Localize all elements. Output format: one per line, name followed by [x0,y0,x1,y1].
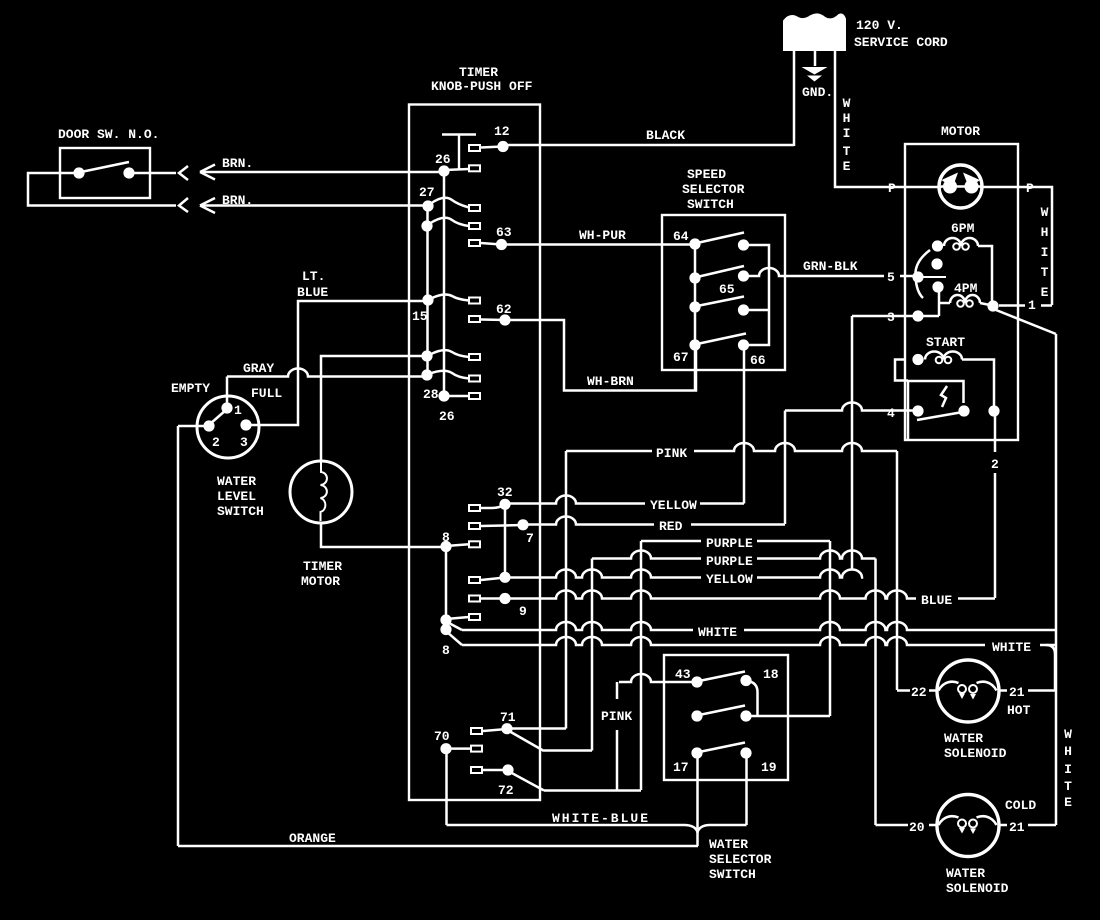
timer terminal 7 dot [517,519,528,530]
wire YELLOW row (32 to 66) [509,496,645,504]
lug 70 [471,746,482,752]
svg-text:FULL: FULL [251,386,282,401]
svg-text:GND.: GND. [802,85,833,100]
lug 577 [469,577,480,583]
svg-text:T: T [843,144,851,159]
svg-text:W: W [1041,205,1049,220]
start switch arm [917,413,960,421]
timer left bus X2 (26 to 28) [443,171,446,396]
svg-text:2: 2 [212,435,220,450]
svg-text:21: 21 [1009,685,1025,700]
lug 8a [469,541,480,547]
speed selector contact r2 fixed [689,272,700,283]
svg-text:BLACK: BLACK [646,128,685,143]
svg-text:WATER: WATER [944,731,983,746]
svg-text:8: 8 [442,530,450,545]
svg-text:BLUE: BLUE [297,285,328,300]
speed selector moving contact r3 [738,304,749,315]
svg-text:COLD: COLD [1005,798,1036,813]
svg-text:W: W [1064,727,1072,742]
svg-text:63: 63 [496,225,512,240]
wire BLUE row (9 to motor 2) [509,591,916,599]
speed selector contact r3 fixed [689,301,700,312]
timer inner dot (gray feed) [421,369,432,380]
wire 6PM right end down to node 1 [978,246,992,305]
wire timer motor bottom lead [321,522,443,547]
wire 71 to pink riser [507,727,566,730]
svg-text:WH-BRN: WH-BRN [587,374,634,389]
start node 2 dot [988,405,999,416]
speed selector box [662,215,785,370]
timer terminal 71 dot [501,723,512,734]
wire orange riser to junction [696,832,699,846]
wire junction to 19 drop [698,825,747,832]
svg-text:SOLENOID: SOLENOID [944,746,1007,761]
speed selector arm 67 [697,334,746,345]
door switch contact right [123,167,134,178]
wire GRAY (1 to timer) [227,369,425,377]
lug 356 [469,354,480,360]
chevron arrowhead row1 [179,166,188,180]
svg-text:PINK: PINK [601,709,632,724]
wire 22 lead [897,689,938,692]
selector moving contact 19 [740,747,751,758]
svg-text:SELECTOR: SELECTOR [682,182,745,197]
svg-text:BRN.: BRN. [222,156,253,171]
svg-text:62: 62 [496,302,512,317]
wire lug to dot 62 [481,318,505,321]
wire 71 arm diagonal [509,731,544,751]
selector moving contact 18 [740,675,751,686]
motor protector circle [939,165,982,208]
timer bus 8a-8c [445,547,448,630]
water solenoid HOT circle [937,660,999,722]
svg-text:67: 67 [673,350,689,365]
timer terminal 8b dot [440,614,451,625]
ground stem [814,50,817,66]
lug 9 [469,596,480,602]
selector arm row C [699,743,745,753]
protector lobe right [965,180,979,194]
svg-text:9: 9 [519,604,527,619]
speed selector contact 64 [689,238,700,249]
speed selector moving contact r1 [738,239,749,250]
timer terminal 32 dot [499,499,510,510]
water level contact 2 [203,420,214,431]
chevron arrowhead row2 [179,198,188,212]
wire dot356 S-curve to lug [429,350,469,357]
svg-text:WATER: WATER [709,837,748,852]
wire dot375 S-curve to lug [429,371,469,379]
svg-text:KNOB-PUSH OFF: KNOB-PUSH OFF [431,79,533,94]
wire P to white drop [1018,187,1052,305]
svg-text:27: 27 [419,185,435,200]
wire 27 S-curve to lug [430,198,469,208]
svg-text:66: 66 [750,353,766,368]
wire BRN to timer 26 [202,171,442,174]
svg-text:SOLENOID: SOLENOID [946,881,1009,896]
wire P row right [983,186,1018,189]
wire water level 2 to orange drop [178,425,209,428]
wire gray riser [226,377,229,407]
wire WHITE-BLUE row (72 arm) [544,789,641,792]
speed selector fixed bus [694,244,697,345]
speed selector arm 64 [697,233,744,244]
svg-text:8: 8 [442,643,450,658]
motor coil 4PM [950,295,980,303]
wire 3 riser down to yellow row [851,316,854,571]
wire pink right drop to solenoid 22 [896,451,899,690]
wire 1 lead [999,304,1052,307]
wire node2 down to BLUE (terminal 2) [994,416,997,598]
speed selector moving contact r2 [738,270,749,281]
wire BRN to timer 27 [202,204,426,207]
selector arm row B [699,706,745,716]
wire white2 corner down to 21 HOT [1046,645,1055,690]
speed selector arm r2 [697,266,744,277]
wire contact lower to 3-row [938,287,941,316]
wire lug to dot 72 [483,769,508,772]
lug 375 [469,376,480,382]
wire lug to dot 63 [481,243,501,245]
wire orange left riser [177,426,180,846]
water level contact 1 [221,402,232,413]
start winding terminal dot [912,354,923,365]
wire PINK row [566,450,652,453]
svg-text:E: E [843,159,851,174]
lug 32 [469,505,480,511]
svg-text:5: 5 [887,270,895,285]
wire WHITE row 1 (8 to motor 1) [462,622,693,630]
svg-text:71: 71 [500,710,516,725]
water level contact 3 [240,419,251,430]
svg-text:GRN-BLK: GRN-BLK [803,259,858,274]
svg-text:21: 21 [1009,820,1025,835]
svg-text:65: 65 [719,282,735,297]
svg-text:2: 2 [991,457,999,472]
wire selector 19 drop [745,753,748,825]
svg-text:H: H [843,111,851,126]
svg-text:28: 28 [423,387,439,402]
motor coil START [925,352,962,360]
svg-text:GRAY: GRAY [243,361,274,376]
lug 27 [469,205,480,211]
lug 226 [469,223,480,229]
door switch box [60,148,150,198]
svg-text:15: 15 [412,309,428,324]
speed selector moving contact 66 [738,339,749,350]
start switch inner box [908,381,964,440]
wire service cord left lead down to BLACK node [793,50,796,146]
wire 70 row to selector junction [447,825,698,832]
wire door switch right lead [129,172,176,175]
svg-text:RED: RED [659,519,683,534]
timer inner dot 577 [499,572,510,583]
wire 4 row (red riser to motor 4) [785,403,918,411]
svg-text:ORANGE: ORANGE [289,831,336,846]
svg-text:7: 7 [526,531,534,546]
speed selector moving bus [744,245,770,345]
svg-text:WATER: WATER [946,866,985,881]
motor terminal 4 dot [912,405,923,416]
wire purple2 right drop (to solenoid 20) [874,559,877,826]
svg-text:26: 26 [435,152,451,167]
wire P row left [905,186,942,189]
centrifugal contact lower [932,281,943,292]
timer terminal 8a dot [440,541,451,552]
lug 62 [469,316,480,322]
wire lug to dot 32 [481,505,505,509]
selector contact 17 [691,747,702,758]
wire 26 to lug [444,169,469,170]
wire ORANGE row [178,845,698,848]
svg-text:3: 3 [240,435,248,450]
svg-text:72: 72 [498,783,514,798]
start switch moving contact [958,405,969,416]
wire dot226 S-curve to lug [429,218,469,226]
wire 4PM left stub [939,302,950,305]
svg-text:SWITCH: SWITCH [709,867,756,882]
lug 15 [469,298,480,304]
wire door switch left loop [28,173,176,206]
svg-text:SELECTOR: SELECTOR [709,852,772,867]
svg-text:WATER: WATER [217,474,256,489]
svg-text:3: 3 [887,310,895,325]
wire 4PM right end [980,303,990,305]
svg-text:TIMER: TIMER [459,65,498,80]
motor centrifugal actuator arc [915,250,930,298]
selector arm row A [699,672,745,682]
lug 63 [469,240,480,246]
svg-text:43: 43 [675,667,691,682]
bus dot32 down to dot577 [504,504,507,577]
wire dot577 to lug [481,578,505,581]
lug 28 [469,393,480,399]
coil 6PM left terminal [932,240,943,251]
wire 20 lead [876,824,939,827]
lug 7 [469,523,480,529]
start winding left stub [895,360,908,381]
wire GRN-BLK (to motor 5) [747,268,884,276]
wire WH-PUR row (63 to 64) [506,243,695,246]
svg-text:4PM: 4PM [954,281,978,296]
svg-text:YELLOW: YELLOW [650,498,697,513]
wire purple2 left drop [591,559,594,751]
motor node 1 dot [987,300,998,311]
timer terminal 26 dot [438,165,449,176]
wire 21 lead (COLD) [999,824,1056,827]
svg-text:1: 1 [1028,298,1036,313]
svg-text:26: 26 [439,409,455,424]
selector contact 43 [691,676,702,687]
selector contact B left [691,710,702,721]
water level switch circle [197,396,259,458]
svg-text:18: 18 [763,667,779,682]
wire node1 diagonal to white riser [996,310,1056,334]
svg-text:H: H [1041,225,1049,240]
svg-text:P: P [888,181,896,196]
svg-text:W: W [843,96,851,111]
wire 28 to lug [444,395,469,398]
timer rail symbol (T bar at terminal 26) [442,135,476,171]
wire PURPLE row 1 [641,540,701,543]
svg-text:E: E [1041,285,1049,300]
wire 8a to lug [446,544,469,546]
svg-text:SWITCH: SWITCH [687,197,734,212]
timer box [409,105,540,801]
svg-text:MOTOR: MOTOR [941,124,980,139]
motor terminal 5 dot [912,271,923,282]
centrifugal blade [923,276,946,278]
wire 18 curve down [746,681,758,717]
wire RED row (7 to motor 4) [527,517,654,525]
svg-text:LT.: LT. [302,269,325,284]
svg-text:T: T [1041,265,1049,280]
timer inner dot (below 27) [421,220,432,231]
water selector box [664,655,788,780]
wire selector row B out to purple drop [746,715,830,718]
solenoid COLD coil [939,816,959,825]
lug 26 [469,165,480,171]
svg-text:P: P [1026,181,1034,196]
wire selector 17 drop [696,753,699,833]
svg-text:4: 4 [887,406,895,421]
svg-text:LEVEL: LEVEL [217,489,256,504]
protector lobe left [943,180,957,194]
door switch contact left [73,167,84,178]
timer terminal 8c dot [440,624,451,635]
wire 72 arm diagonal to white-blue row [508,771,544,791]
speed selector arm r3 [697,297,744,307]
svg-text:YELLOW: YELLOW [706,572,753,587]
svg-text:I: I [1064,762,1072,777]
ground symbol [802,67,828,75]
svg-text:32: 32 [497,485,513,500]
timer terminal 70 dot [440,743,451,754]
wire 15 S-curve to lug [430,295,469,301]
svg-text:TIMER: TIMER [303,559,342,574]
timer terminal 15 dot [422,294,433,305]
motor coil 6PM [944,238,978,246]
svg-text:PINK: PINK [656,446,687,461]
speed selector contact 67 [689,339,700,350]
svg-text:6PM: 6PM [951,221,975,236]
arrow BRN row1 [200,165,215,180]
water level switch arm [210,410,226,424]
wire lug to dot 12 [481,147,503,148]
svg-text:BLUE: BLUE [921,593,952,608]
wire YELLOW row 2 (577 to motor 3) [509,570,701,578]
door switch arm [81,162,129,172]
wire red riser [784,411,787,525]
wire 70 to lug [446,747,471,750]
timer terminal 28 dot [438,390,449,401]
timer motor circle [290,461,352,523]
wire 66 drop to YELLOW row [743,345,746,504]
timer terminal 9 dot [499,593,510,604]
solenoid HOT coil [939,682,959,691]
wire 43 row [619,674,694,682]
wire 8b to lug [446,617,469,619]
wire 8b diagonal to white row1 [447,622,462,630]
svg-text:70: 70 [434,729,450,744]
timer terminal 27 dot [422,200,433,211]
svg-text:HOT: HOT [1007,703,1031,718]
wire P through protector [941,185,981,188]
wire 8c diagonal to white row2 [447,632,462,645]
svg-text:WHITE: WHITE [698,625,737,640]
wire pink drop to selector 43 (upper part) [616,682,619,791]
svg-text:22: 22 [911,685,927,700]
svg-text:START: START [926,335,965,350]
svg-text:20: 20 [909,820,925,835]
wire PURPLE row 2 [592,551,701,559]
wire lug to dot 7 [481,525,523,526]
timer left bus X1 [426,206,429,375]
svg-text:17: 17 [673,760,689,775]
motor terminal 3 dot [912,310,923,321]
centrifugal contact upper [931,258,942,269]
svg-text:WHITE: WHITE [992,640,1031,655]
wire 21 lead (HOT) [999,689,1056,692]
wire lug to dot 71 [483,729,507,731]
wire start coil to node 2 [962,360,994,412]
svg-text:I: I [1041,245,1049,260]
selector moving contact B [740,710,751,721]
svg-text:PURPLE: PURPLE [706,554,753,569]
svg-text:DOOR SW. N.O.: DOOR SW. N.O. [58,127,159,142]
svg-text:19: 19 [761,760,777,775]
lug 71 [471,728,482,734]
wire lug to dot 9 [481,597,505,600]
svg-text:12: 12 [494,124,510,139]
wire row 750 (72 arm to purple2) [544,749,592,752]
wire LT BLUE (3 to 15) [248,301,426,425]
timer terminal 12 dot [497,141,508,152]
svg-text:1: 1 [234,403,242,418]
wire BLACK row [508,144,794,147]
wire purple1 left drop [640,541,643,790]
svg-text:H: H [1064,744,1072,759]
water solenoid COLD circle [937,795,999,857]
wire service cord right lead (white) down to motor P [835,50,905,187]
wire 3 row [852,315,939,318]
timer terminal 62 dot [499,314,510,325]
arrow BRN row2 [200,198,215,213]
wire timer motor top lead [321,356,424,462]
wire white riser (motor 1 to solenoids) [1055,334,1058,825]
svg-text:SPEED: SPEED [687,167,726,182]
svg-text:SERVICE CORD: SERVICE CORD [854,35,948,50]
timer terminal 72 dot [502,764,513,775]
svg-text:WH-PUR: WH-PUR [579,228,626,243]
svg-text:PURPLE: PURPLE [706,536,753,551]
service cord plug body [784,14,845,50]
timer inner dot (timer motor feed) [421,350,432,361]
lug 12 [469,145,480,151]
svg-text:T: T [1064,779,1072,794]
wire WHITE row 2 (8 to solenoid 21) [462,637,985,645]
lug 72 [471,767,482,773]
svg-text:SWITCH: SWITCH [217,504,264,519]
wire purple1 right drop (to selector 18) [829,541,832,716]
timer terminal 63 dot [496,239,507,250]
wire 62 to 67 (WH-BRN) [510,320,696,391]
svg-text:E: E [1064,795,1072,810]
svg-text:64: 64 [673,229,689,244]
svg-text:MOTOR: MOTOR [301,574,340,589]
start switch flag [941,386,947,407]
